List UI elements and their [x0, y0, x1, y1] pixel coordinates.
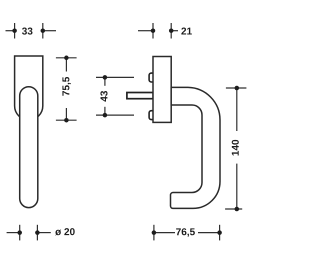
- dimension 21: [138, 23, 178, 39]
- label 76,5: [176, 228, 195, 237]
- front view grip: [20, 87, 38, 208]
- label 33: [22, 28, 33, 35]
- label diameter 20: [55, 228, 75, 235]
- dimension 140: [225, 88, 246, 209]
- side view top screw tab: [149, 73, 157, 82]
- dimension 33: [6, 23, 57, 39]
- label 75,5: [62, 77, 70, 96]
- dimension 76,5: [154, 225, 220, 241]
- label 21: [181, 28, 191, 35]
- dimension 43: [96, 77, 134, 115]
- label 140: [232, 140, 239, 156]
- front view plate: [15, 56, 43, 120]
- dimension 75,5: [56, 58, 77, 120]
- side view grip: [171, 87, 221, 208]
- label 43: [100, 91, 107, 102]
- side view plate: [153, 57, 171, 123]
- spindle: [127, 93, 153, 99]
- dimension diameter 20: [7, 225, 51, 241]
- side view bottom screw tab: [149, 111, 157, 120]
